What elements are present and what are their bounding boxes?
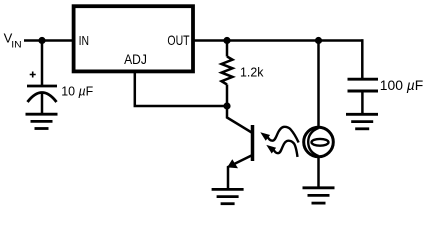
node VIN label	[4, 31, 22, 51]
emitter wire	[228, 155, 253, 189]
ground under Q1 emitter	[212, 189, 244, 203]
wire lamp branch down	[317, 41, 320, 129]
wire ADJ pin	[135, 72, 227, 106]
lamp DS1	[304, 127, 334, 157]
wire input rail from VIN to IN pin	[24, 39, 73, 42]
junction OUT node at resistor	[223, 37, 230, 44]
svg-text:IN: IN	[11, 39, 22, 50]
base bar	[251, 125, 255, 161]
capacitor C2 100uF	[348, 79, 379, 91]
regulator U1 box	[74, 6, 193, 71]
wire lamp to ground	[317, 157, 320, 188]
ground under lamp	[303, 188, 335, 203]
junction OUT node at lamp	[315, 37, 322, 44]
wire C1 to ground	[41, 93, 44, 114]
wire OUT rail corner down to C2	[361, 39, 364, 79]
emitter arrow	[227, 159, 238, 168]
wire input node down to C1	[41, 41, 44, 86]
junction input node	[38, 37, 45, 44]
ground under C2	[346, 114, 378, 129]
light arrow lower	[266, 141, 297, 157]
svg-text:IN: IN	[79, 33, 89, 48]
light arrow upper	[260, 127, 298, 143]
wire OUT rail	[194, 39, 364, 42]
wire C2 to ground	[361, 91, 364, 114]
svg-text:ADJ: ADJ	[124, 52, 147, 67]
capacitor C1 10uF	[27, 72, 57, 103]
junction ADJ node	[223, 102, 230, 109]
phototransistor Q1	[227, 106, 299, 189]
svg-text:10 µF: 10 µF	[61, 83, 93, 98]
svg-text:100 µF: 100 µF	[380, 78, 423, 93]
svg-text:OUT: OUT	[167, 33, 189, 48]
ground under C1	[26, 114, 58, 128]
resistor R1 1.2k	[222, 41, 233, 107]
collector wire	[227, 106, 253, 133]
svg-text:1.2k: 1.2k	[240, 64, 264, 79]
